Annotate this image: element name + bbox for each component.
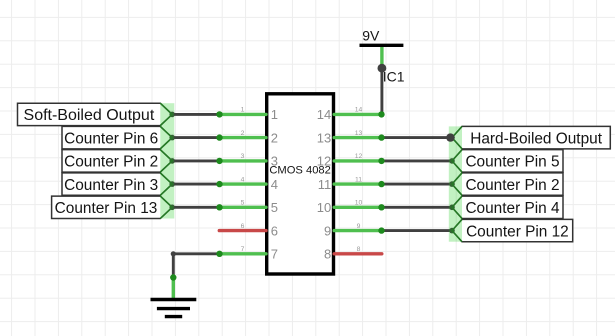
svg-text:Counter Pin 3: Counter Pin 3 bbox=[64, 177, 158, 194]
svg-text:8: 8 bbox=[357, 246, 361, 253]
svg-text:3: 3 bbox=[241, 153, 245, 160]
svg-text:2: 2 bbox=[271, 130, 278, 145]
svg-text:Counter Pin 2: Counter Pin 2 bbox=[465, 177, 559, 194]
svg-text:Soft-Boiled Output: Soft-Boiled Output bbox=[24, 107, 155, 124]
svg-text:8: 8 bbox=[324, 247, 331, 262]
svg-text:10: 10 bbox=[355, 200, 363, 207]
svg-text:9: 9 bbox=[357, 223, 361, 230]
svg-text:Counter Pin 13: Counter Pin 13 bbox=[55, 200, 158, 217]
svg-text:9V: 9V bbox=[362, 28, 380, 44]
svg-text:3: 3 bbox=[271, 154, 278, 169]
svg-text:10: 10 bbox=[317, 200, 331, 215]
svg-text:5: 5 bbox=[271, 200, 278, 215]
svg-text:Hard-Boiled Output: Hard-Boiled Output bbox=[470, 130, 602, 147]
svg-text:11: 11 bbox=[318, 177, 332, 192]
svg-text:9: 9 bbox=[324, 223, 331, 238]
svg-text:7: 7 bbox=[241, 246, 245, 253]
svg-text:11: 11 bbox=[355, 176, 362, 183]
svg-text:IC1: IC1 bbox=[383, 69, 405, 85]
svg-text:2: 2 bbox=[241, 130, 245, 137]
svg-text:12: 12 bbox=[355, 153, 363, 160]
svg-text:Counter Pin 12: Counter Pin 12 bbox=[466, 223, 569, 240]
svg-text:4: 4 bbox=[271, 177, 278, 192]
svg-text:5: 5 bbox=[241, 200, 245, 207]
svg-text:1: 1 bbox=[241, 107, 245, 114]
svg-text:6: 6 bbox=[241, 223, 245, 230]
svg-text:Counter Pin 4: Counter Pin 4 bbox=[465, 200, 560, 217]
svg-text:14: 14 bbox=[317, 107, 331, 122]
svg-text:7: 7 bbox=[271, 247, 278, 262]
svg-text:4: 4 bbox=[241, 176, 245, 183]
svg-text:Counter Pin 2: Counter Pin 2 bbox=[64, 154, 158, 171]
svg-text:12: 12 bbox=[317, 154, 331, 169]
svg-text:Counter Pin 5: Counter Pin 5 bbox=[465, 154, 559, 171]
svg-text:14: 14 bbox=[355, 107, 363, 114]
svg-text:6: 6 bbox=[271, 223, 278, 238]
svg-text:1: 1 bbox=[271, 107, 278, 122]
svg-text:13: 13 bbox=[355, 130, 363, 137]
svg-text:Counter Pin 6: Counter Pin 6 bbox=[64, 130, 158, 147]
svg-text:13: 13 bbox=[317, 130, 331, 145]
